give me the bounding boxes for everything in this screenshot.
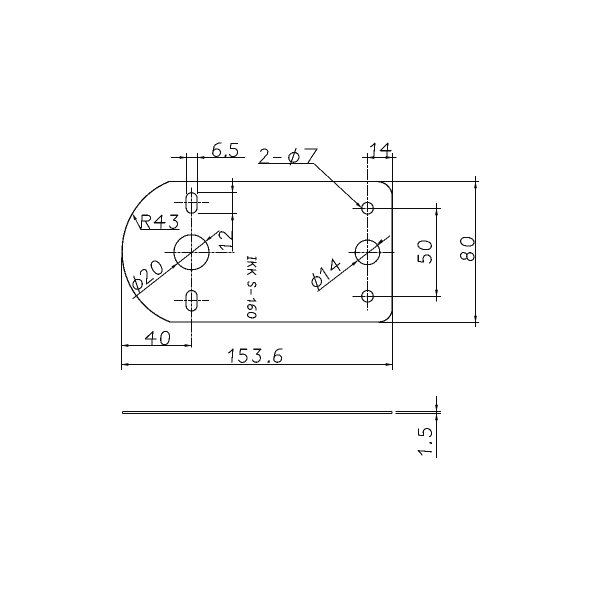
arrow 14 left [368,156,375,159]
arrow 80 top [474,182,477,189]
arrow 50 top [435,209,438,216]
arrow 40 right [185,344,192,347]
arrow 2-phi7 leader [356,203,362,209]
extension line right edge (for 14 / 153.6) [392,154,394,370]
dim line 14 [363,157,397,159]
centerline horizontal phi20 [165,252,234,254]
diameter line phi20 [133,231,219,299]
arrow phi14 upper-right [377,239,383,244]
arrow 12 bottom [231,214,234,221]
slot top 6.5x12 [186,193,197,214]
leader R43 [134,216,141,229]
arrow phi14 lower-left [352,260,358,265]
text phi20 (rotated) [133,261,162,292]
extension lines dim 6.5 [187,154,198,194]
arrow 50 bottom [435,290,438,297]
diameter line phi14 [318,236,390,291]
leader 2-phi7 [314,164,359,206]
arrow 12 top [231,186,234,193]
dim line 50 [436,204,438,302]
centerline horizontal phi7 top [353,208,382,210]
dim line 40 [122,345,192,347]
dim line 12 [232,179,234,252]
text 6.5 [213,143,238,157]
arrow 153.6 right [386,363,393,366]
side view of plate (1.5 thick) [122,412,392,414]
arrow R43 leader [132,214,137,221]
text 14 [371,143,391,156]
underline R43 [141,229,179,231]
extension lines dim 12 [199,193,237,214]
arrow phi20 upper-right [205,236,211,241]
centerline horizontal phi7 bottom [353,296,382,298]
hole phi20 [174,235,209,270]
arrow 1.5 top [435,405,438,412]
text 80 (rotated) [461,237,475,260]
text 2-phi7 [260,148,318,165]
dim line 1.5 [436,397,438,458]
hole phi14 [355,240,380,265]
hole phi7 bottom [362,291,374,303]
centerline horizontal phi14 [349,252,395,254]
text 153.6 [229,349,282,363]
slot bottom 6.5x12 [186,291,197,312]
dim line 153.6 [122,364,393,366]
centerline horizontal bottom slot [175,300,209,302]
centerline vertical left hole group [191,188,193,349]
arrow 6.5 left [180,156,187,159]
dim line 80 [475,177,477,327]
centerline vertical right hole group [367,154,369,311]
centerline horizontal top slot [175,202,209,204]
text IKK S-160 (rotated) [248,257,256,318]
plate outline (top view): R43 left arc, edges, rounded right corners [122,182,392,323]
extension lines dim 1.5 [396,412,441,414]
text 1.5 (rotated) [418,429,431,455]
extension line left (for 40 / 153.6) [121,258,123,370]
dim line 6.5 [172,157,245,159]
text phi14 (rotated) [312,259,340,289]
extension lines dim 80 [377,182,479,323]
arrow 40 left [122,344,129,347]
arrow 14 right [386,156,393,159]
arrow 1.5 bottom [435,414,438,421]
arrow 153.6 left [122,363,129,366]
text 40 [145,331,169,345]
text R43 [141,215,178,228]
hole phi7 top [362,203,374,215]
text 12 (rotated) [219,231,232,249]
extension lines dim 50 [374,209,441,297]
arrow 80 bottom [474,316,477,323]
text 50 (rotated) [418,241,431,263]
underline 2-phi7 [259,163,314,165]
arrow 6.5 right [198,156,205,159]
arrow phi20 lower-left [172,263,178,268]
